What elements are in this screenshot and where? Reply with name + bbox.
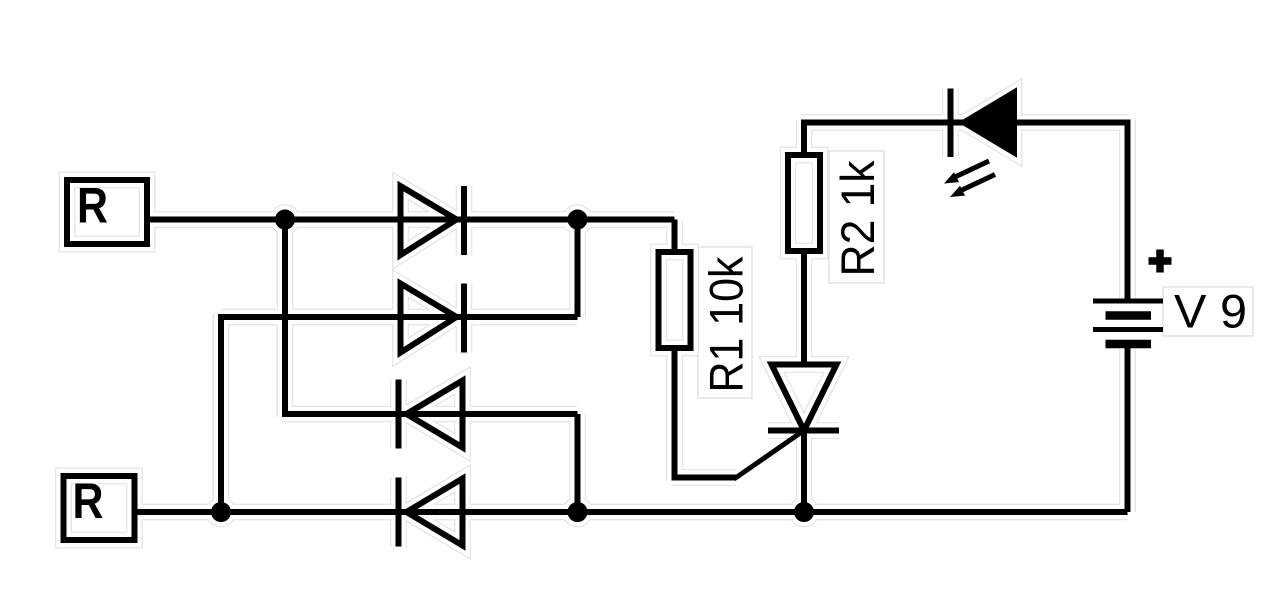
ghost frames around labels <box>698 151 1253 398</box>
ghost pass: artwork <box>64 89 1172 547</box>
final black artwork <box>64 89 1172 547</box>
final black text <box>73 160 1248 529</box>
